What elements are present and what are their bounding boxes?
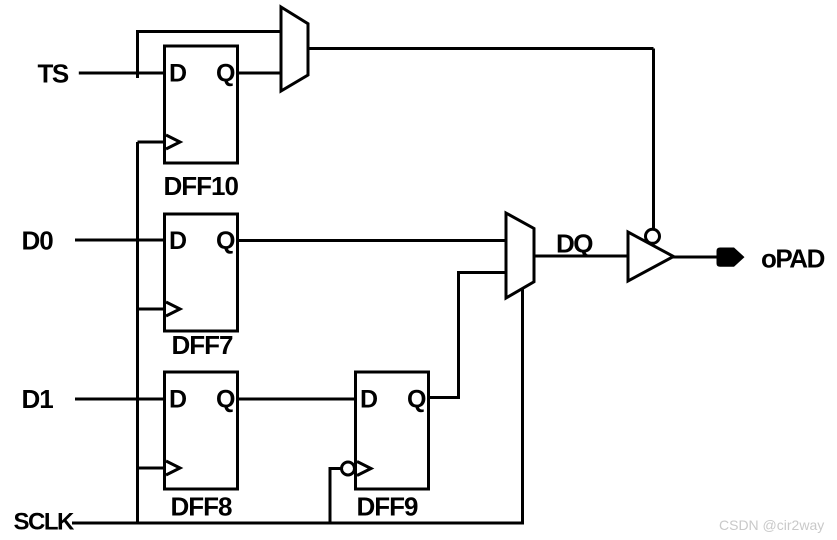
wire mux M2 output down to tri-state control bubble xyxy=(652,49,655,230)
svg-text:D: D xyxy=(169,60,187,88)
svg-text:DFF9: DFF9 xyxy=(357,492,419,522)
wire DFF8 Q to DFF9 D xyxy=(238,398,356,401)
svg-text:DQ: DQ xyxy=(556,229,593,259)
svg-text:D: D xyxy=(360,386,378,414)
wire DQ: mux M1 output to tri-state input xyxy=(534,255,628,258)
wire tri-state output to pad xyxy=(673,256,718,259)
wire clock trunk vertical xyxy=(136,142,139,523)
svg-text:TS: TS xyxy=(38,59,69,89)
svg-text:D1: D1 xyxy=(22,384,54,414)
wire DFF10 Q to mux M2 lower input xyxy=(238,72,282,75)
wire D0 input xyxy=(75,239,165,242)
tri-state output buffer U1 xyxy=(628,232,674,281)
wire DFF10 clock jog xyxy=(138,141,166,144)
mux M2 (top, TS path) xyxy=(281,7,308,91)
wire TS input xyxy=(79,72,165,75)
flip-flop DFF9 box xyxy=(342,372,429,489)
wire DFF8 clock jog xyxy=(138,467,165,470)
wire DFF9 Q up to mux M1 lower input xyxy=(429,273,507,398)
svg-text:Q: Q xyxy=(407,386,426,414)
wire SCLK input xyxy=(72,522,523,525)
svg-text:D0: D0 xyxy=(22,226,54,256)
wire DFF7 clock jog xyxy=(138,308,165,311)
svg-text:Q: Q xyxy=(216,386,235,414)
flip-flop DFF8 box xyxy=(165,372,238,489)
svg-text:DFF10: DFF10 xyxy=(164,171,239,201)
pad symbol oPAD xyxy=(717,248,745,267)
svg-text:Q: Q xyxy=(216,227,235,255)
svg-text:D: D xyxy=(169,227,187,255)
wire DFF7 Q to mux M1 upper input xyxy=(238,239,507,242)
svg-text:CSDN @cir2way: CSDN @cir2way xyxy=(719,517,824,533)
svg-text:Q: Q xyxy=(216,60,235,88)
flip-flop DFF10 box xyxy=(165,46,238,163)
wire TS branch vertical to top xyxy=(136,32,139,79)
wire D1 input xyxy=(75,398,165,401)
wire mux M2 output xyxy=(308,47,654,50)
svg-text:D: D xyxy=(169,386,187,414)
wire mux M1 select from SCLK xyxy=(521,289,524,525)
mux M1 (middle, data path) xyxy=(506,213,534,298)
wire top branch horizontal to mux M2 upper input xyxy=(136,30,281,33)
svg-text:DFF8: DFF8 xyxy=(171,492,233,522)
wire DFF9 clock from SCLK xyxy=(330,469,342,525)
svg-text:DFF7: DFF7 xyxy=(172,330,234,360)
tri-state enable bubble xyxy=(646,229,660,243)
flip-flop DFF7 box xyxy=(165,214,238,331)
svg-text:oPAD: oPAD xyxy=(761,244,825,274)
svg-text:SCLK: SCLK xyxy=(14,509,76,536)
